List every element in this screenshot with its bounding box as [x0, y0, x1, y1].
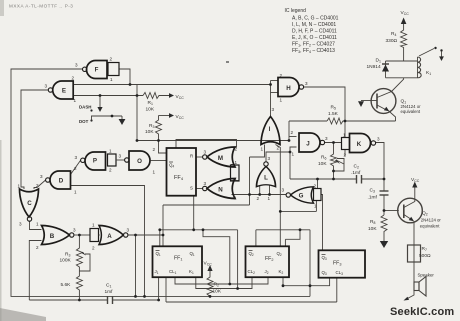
- svg-text:R6: R6: [321, 155, 326, 161]
- svg-text:3: 3: [272, 107, 275, 112]
- svg-text:E, J, K, O – CD4011: E, J, K, O – CD4011: [292, 35, 337, 41]
- svg-text:2: 2: [257, 196, 260, 201]
- svg-text:1: 1: [268, 196, 271, 201]
- svg-text:1: 1: [292, 152, 295, 157]
- svg-text:2: 2: [314, 184, 317, 189]
- svg-text:SeekIC.com: SeekIC.com: [390, 306, 454, 318]
- svg-text:3: 3: [75, 155, 78, 160]
- svg-text:B: B: [50, 233, 55, 240]
- svg-text:1: 1: [110, 77, 113, 82]
- svg-text:2: 2: [234, 196, 237, 201]
- svg-text:Q4: Q4: [169, 163, 174, 169]
- svg-text:C1: C1: [106, 283, 111, 289]
- svg-text:3: 3: [282, 188, 285, 193]
- svg-text:5.6K: 5.6K: [61, 282, 72, 288]
- svg-text:3: 3: [45, 84, 48, 89]
- svg-text:Q1: Q1: [156, 251, 161, 257]
- svg-text:R4: R4: [391, 31, 396, 37]
- svg-text:Q2: Q2: [422, 211, 428, 217]
- svg-text:Q1: Q1: [190, 251, 195, 257]
- svg-text:1: 1: [314, 204, 317, 209]
- svg-text:J1: J1: [155, 269, 159, 275]
- svg-text:S: S: [190, 186, 193, 191]
- svg-text:R1: R1: [148, 100, 153, 106]
- svg-text:DASH: DASH: [79, 105, 91, 110]
- svg-text:1: 1: [18, 184, 21, 189]
- svg-text:2N4124 or: 2N4124 or: [421, 218, 442, 223]
- svg-text:2: 2: [92, 246, 95, 251]
- svg-text:FF1: FF1: [174, 256, 182, 262]
- svg-text:2: 2: [277, 146, 280, 151]
- svg-text:Q3: Q3: [322, 270, 327, 276]
- svg-text:1: 1: [261, 147, 264, 152]
- svg-text:3: 3: [204, 181, 207, 186]
- svg-text:L: L: [264, 175, 268, 182]
- svg-text:R: R: [190, 154, 193, 159]
- svg-text:Speaker: Speaker: [418, 273, 435, 278]
- svg-text:DOT: DOT: [79, 119, 89, 124]
- svg-text:R7: R7: [422, 246, 427, 252]
- svg-text:3: 3: [75, 63, 78, 68]
- svg-text:F: F: [95, 67, 99, 74]
- svg-text:IC legend: IC legend: [285, 8, 307, 14]
- svg-text:3: 3: [40, 174, 43, 179]
- svg-text:O: O: [137, 158, 142, 165]
- svg-text:3: 3: [305, 81, 308, 86]
- svg-text:2: 2: [36, 183, 39, 188]
- svg-text:3: 3: [127, 228, 130, 233]
- svg-text:VCC: VCC: [176, 94, 185, 100]
- svg-text:330Ω: 330Ω: [386, 38, 398, 44]
- svg-text:2: 2: [344, 153, 347, 158]
- svg-text:K2: K2: [279, 269, 284, 275]
- svg-text:1: 1: [109, 149, 112, 154]
- svg-text:J: J: [306, 141, 310, 148]
- svg-text:D1: D1: [376, 58, 381, 64]
- svg-text:500Ω: 500Ω: [419, 253, 431, 259]
- svg-text:K1: K1: [189, 269, 194, 275]
- svg-text:FF3: FF3: [333, 261, 341, 267]
- svg-text:CL1: CL1: [169, 269, 177, 275]
- svg-text:1: 1: [92, 223, 95, 228]
- svg-text:2: 2: [74, 166, 77, 171]
- svg-text:2: 2: [36, 245, 39, 250]
- svg-text:E: E: [62, 88, 66, 95]
- svg-text:2: 2: [72, 76, 75, 81]
- svg-text:10K: 10K: [318, 161, 327, 167]
- svg-text:I: I: [269, 126, 271, 133]
- svg-text:FF3, FF4 – CD4013: FF3, FF4 – CD4013: [292, 48, 335, 54]
- svg-text:VCC: VCC: [411, 177, 420, 183]
- svg-text:I, L, M, N – CD4001: I, L, M, N – CD4001: [292, 22, 336, 28]
- svg-text:R2: R2: [214, 282, 219, 288]
- svg-text:VCC: VCC: [176, 114, 185, 120]
- svg-text:MXXA A-TL-MOTTF .. P-3: MXXA A-TL-MOTTF .. P-3: [9, 4, 73, 9]
- svg-text:3: 3: [204, 150, 207, 155]
- svg-text:1: 1: [36, 222, 39, 227]
- svg-text:H: H: [286, 85, 291, 92]
- svg-text:D: D: [59, 178, 64, 185]
- svg-text:3: 3: [73, 228, 76, 233]
- svg-text:K: K: [357, 141, 362, 148]
- svg-text:.1mf: .1mf: [351, 170, 361, 176]
- svg-text:1.5K: 1.5K: [328, 111, 339, 117]
- svg-text:G: G: [299, 193, 304, 200]
- svg-text:Q2: Q2: [249, 251, 254, 257]
- svg-text:Q3: Q3: [322, 255, 327, 261]
- svg-text:2: 2: [109, 168, 112, 173]
- svg-text:2: 2: [280, 73, 283, 78]
- svg-text:1: 1: [343, 133, 346, 138]
- svg-text:2: 2: [153, 147, 156, 152]
- svg-text:N: N: [218, 187, 223, 194]
- svg-text:3: 3: [377, 137, 380, 142]
- svg-text:1mf: 1mf: [105, 289, 114, 295]
- svg-text:2: 2: [291, 130, 294, 135]
- svg-text:M: M: [218, 155, 223, 162]
- svg-text:10K: 10K: [145, 129, 154, 135]
- svg-text:1N914: 1N914: [367, 64, 381, 70]
- svg-text:10K: 10K: [213, 289, 222, 295]
- svg-text:equivalent: equivalent: [420, 224, 440, 229]
- svg-text:3: 3: [19, 222, 22, 227]
- svg-text:VCC: VCC: [204, 261, 213, 267]
- svg-text:J2: J2: [265, 269, 269, 275]
- svg-text:Q2: Q2: [277, 251, 282, 257]
- svg-text:3: 3: [268, 156, 271, 161]
- svg-text:FF2: FF2: [265, 256, 273, 262]
- svg-text:K1: K1: [426, 70, 431, 76]
- svg-text:2: 2: [235, 147, 238, 152]
- svg-text:FF1, FF2 – CD4027: FF1, FF2 – CD4027: [292, 42, 335, 48]
- svg-text:A: A: [107, 233, 112, 240]
- svg-text:C: C: [27, 200, 32, 207]
- svg-text:1: 1: [235, 178, 238, 183]
- svg-text:CL3: CL3: [336, 270, 344, 276]
- svg-text:3: 3: [119, 154, 122, 159]
- svg-text:VCC: VCC: [401, 10, 410, 16]
- svg-text:R8: R8: [370, 219, 375, 225]
- svg-text:3: 3: [325, 136, 328, 141]
- svg-text:C3: C3: [370, 188, 375, 194]
- svg-text:FF4: FF4: [174, 175, 184, 181]
- svg-text:10K: 10K: [368, 226, 377, 232]
- svg-text:2: 2: [110, 57, 113, 62]
- svg-text:R3: R3: [65, 252, 70, 258]
- svg-text:1: 1: [74, 190, 77, 195]
- svg-text:P: P: [93, 158, 97, 165]
- svg-text:C2: C2: [354, 164, 359, 170]
- svg-text:R3: R3: [149, 123, 154, 129]
- svg-text:CL2: CL2: [248, 269, 256, 275]
- svg-text:A, B, C, G – CD4001: A, B, C, G – CD4001: [292, 16, 339, 22]
- svg-text:100K: 100K: [60, 258, 72, 264]
- svg-text:R5: R5: [331, 105, 336, 111]
- svg-text:1: 1: [280, 98, 283, 103]
- svg-text:equivalent: equivalent: [401, 109, 421, 114]
- svg-text:10K: 10K: [146, 107, 155, 113]
- svg-text:1: 1: [74, 98, 77, 103]
- svg-text:D, H, F, P – CD4011: D, H, F, P – CD4011: [292, 29, 337, 35]
- svg-text:.1mf: .1mf: [368, 195, 378, 201]
- svg-text:1: 1: [235, 160, 238, 165]
- svg-text:1: 1: [153, 170, 156, 175]
